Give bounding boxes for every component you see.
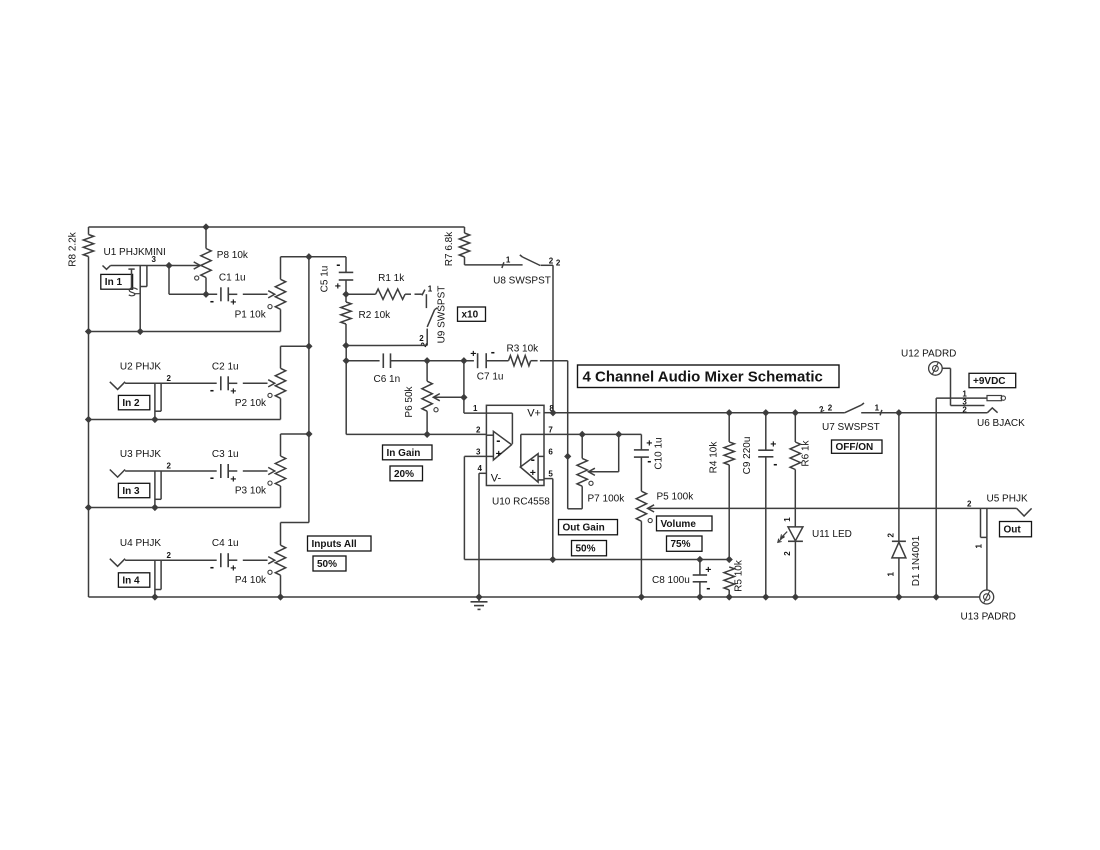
svg-text:-: - xyxy=(647,454,651,468)
LED U11 xyxy=(778,517,852,597)
svg-text:U11 LED: U11 LED xyxy=(812,529,852,540)
label U4 PHJK xyxy=(120,538,161,549)
junction dot P8 bottom xyxy=(203,291,209,297)
svg-text:U8 SWSPST: U8 SWSPST xyxy=(493,276,551,287)
svg-text:-: - xyxy=(210,294,214,308)
wire ch1 ground line xyxy=(89,331,281,333)
resistor R2 xyxy=(341,294,391,345)
svg-text:C1 1u: C1 1u xyxy=(219,273,246,284)
svg-text:U2 PHJK: U2 PHJK xyxy=(120,361,161,372)
svg-text:2: 2 xyxy=(549,257,554,266)
svg-text:In 2: In 2 xyxy=(122,398,140,409)
wire pin 8 stub xyxy=(544,412,553,414)
jack U4 PHJK tip contact xyxy=(110,559,125,567)
junction dot U6 pin1 at bus xyxy=(933,594,939,600)
junction dot U1 sleeve at ch1 ground xyxy=(137,328,143,334)
svg-text:Inputs All: Inputs All xyxy=(312,539,357,550)
junction dot top rail at P8 xyxy=(203,224,209,230)
svg-text:+: + xyxy=(230,386,236,398)
pin label 1 of U10 xyxy=(473,404,478,413)
junction dot ch2 ground at left rail xyxy=(85,416,91,422)
svg-text:R8 2.2k: R8 2.2k xyxy=(68,231,79,266)
svg-text:+: + xyxy=(230,563,236,575)
svg-text:1: 1 xyxy=(506,255,511,264)
jack U1 sleeve contact xyxy=(140,266,147,332)
resistor R4 xyxy=(709,413,735,560)
jack U5 PHJK xyxy=(967,493,1032,548)
capacitor C3 xyxy=(210,449,268,485)
junction dot U2 sleeve at ch2 ground xyxy=(152,416,158,422)
wire pin 2 row xyxy=(346,433,486,435)
junction dot D1 bottom at bus xyxy=(896,594,902,600)
svg-text:Out Gain: Out Gain xyxy=(563,523,605,534)
label box In 4 xyxy=(118,573,149,587)
svg-text:R4 10k: R4 10k xyxy=(709,441,720,474)
svg-text:3: 3 xyxy=(476,447,481,456)
potentiometer P5 xyxy=(636,491,694,597)
junction dot P7 wiper at pin7 row xyxy=(616,431,622,437)
pin label 2 of U4 xyxy=(167,551,172,560)
svg-text:1: 1 xyxy=(783,517,792,522)
wire pin 3 to bias net xyxy=(464,456,486,559)
potentiometer P7 xyxy=(577,434,625,504)
svg-text:D1 1N4001: D1 1N4001 xyxy=(911,535,922,586)
wire R3 to pin 6 node xyxy=(567,361,569,457)
svg-text:5: 5 xyxy=(548,469,553,478)
svg-text:Out: Out xyxy=(1004,525,1022,536)
switch U9 SWSPST xyxy=(419,285,447,349)
svg-text:P3 10k: P3 10k xyxy=(235,486,267,497)
svg-text:2: 2 xyxy=(167,551,172,560)
junction dot P4 bottom at bus xyxy=(277,594,283,600)
svg-text:C10 1u: C10 1u xyxy=(654,437,665,469)
wire V+ rail left of U7 xyxy=(553,412,845,414)
wire pin 6 to P7 bottom xyxy=(568,456,583,508)
label U2 PHJK xyxy=(120,361,161,372)
op-amp U10 amp A triangle xyxy=(486,413,512,460)
wire pin 4 to ground xyxy=(479,473,486,602)
svg-text:1: 1 xyxy=(428,285,433,294)
jack U3 PHJK tip contact xyxy=(110,470,125,478)
wire V+ rail right of U7 xyxy=(899,412,988,414)
capacitor C2 xyxy=(210,361,268,397)
svg-text:-: - xyxy=(336,258,340,272)
op-amp U10 amp B triangle xyxy=(520,434,544,482)
svg-text:1: 1 xyxy=(875,404,880,413)
svg-text:2: 2 xyxy=(828,403,833,412)
svg-text:-: - xyxy=(210,471,214,485)
wire left ground rail xyxy=(88,227,90,597)
junction dot P2 at mix bus xyxy=(306,343,312,349)
wire U2 to C2 xyxy=(125,382,217,384)
pad U12 PADRD xyxy=(901,349,956,376)
svg-text:2: 2 xyxy=(167,462,172,471)
pad U13 PADRD xyxy=(961,590,1016,623)
svg-text:R6 1k: R6 1k xyxy=(801,439,812,466)
resistor R6 xyxy=(790,413,811,527)
junction dot pin 5 at bias net xyxy=(550,556,556,562)
junction dot U4 sleeve at bottom bus xyxy=(152,594,158,600)
svg-text:2: 2 xyxy=(476,425,481,434)
pin label 6 of U10 xyxy=(548,447,553,456)
svg-text:U4 PHJK: U4 PHJK xyxy=(120,538,161,549)
junction dot U8 at V+ rail xyxy=(550,410,556,416)
svg-text:R3 10k: R3 10k xyxy=(507,343,540,354)
label box Volume xyxy=(657,516,713,531)
svg-text:OFF/ON: OFF/ON xyxy=(836,442,874,453)
svg-text:-: - xyxy=(706,581,710,595)
svg-text:2: 2 xyxy=(967,499,972,508)
svg-text:+9VDC: +9VDC xyxy=(973,376,1006,387)
wire pin 5 to bias net xyxy=(544,479,553,560)
label U3 PHJK xyxy=(120,449,161,460)
wire U12 to U6 pin 3 xyxy=(942,368,984,405)
wire R2 junction down to pin2 row xyxy=(345,346,347,435)
svg-text:C9 220u: C9 220u xyxy=(742,437,753,475)
svg-text:+: + xyxy=(705,564,711,576)
junction dot P5 bottom at bus xyxy=(638,594,644,600)
svg-text:R7 6.8k: R7 6.8k xyxy=(444,231,455,266)
wire R2 bottom to U9 pin 2 xyxy=(346,344,427,346)
wire P5 wiper to U5 jack xyxy=(649,507,1017,509)
jack U3 sleeve contact xyxy=(155,471,161,508)
svg-text:1: 1 xyxy=(473,404,478,413)
svg-text:C2 1u: C2 1u xyxy=(212,361,239,372)
diode D1 1N4001 xyxy=(887,413,922,597)
svg-text:6: 6 xyxy=(548,447,553,456)
potentiometer P3 xyxy=(235,434,286,508)
pin label 2 of U2 xyxy=(167,374,172,383)
svg-text:C5 1u: C5 1u xyxy=(320,266,331,293)
junction dot C9 bottom at bus xyxy=(763,594,769,600)
svg-text:U5 PHJK: U5 PHJK xyxy=(987,493,1028,504)
junction dot P3 at mix bus xyxy=(306,431,312,437)
junction dot P6 bottom xyxy=(424,431,430,437)
wire P3 top to mix bus xyxy=(281,433,309,435)
svg-text:-: - xyxy=(210,383,214,397)
wire U6 pin 1 down to bottom bus xyxy=(935,398,937,597)
svg-text:+: + xyxy=(530,467,536,479)
svg-text:+: + xyxy=(230,297,236,309)
svg-text:C3 1u: C3 1u xyxy=(212,449,239,460)
junction dot R6 top at V+ rail xyxy=(792,410,798,416)
capacitor C6 xyxy=(346,353,427,385)
potentiometer P2 xyxy=(235,346,286,419)
switch U7 SWSPST xyxy=(818,403,899,433)
pin label 8 of U10 xyxy=(549,404,554,413)
resistor R3 xyxy=(507,343,568,366)
svg-text:U3 PHJK: U3 PHJK xyxy=(120,449,161,460)
svg-text:C6 1n: C6 1n xyxy=(374,374,401,385)
wire bias net row xyxy=(464,559,729,561)
junction dot ch1 ground at left rail xyxy=(85,328,91,334)
potentiometer P4 xyxy=(235,523,286,598)
junction dot U7 pin1 / D1 at V+ rail xyxy=(896,410,902,416)
svg-text:In 3: In 3 xyxy=(122,486,140,497)
svg-text:+: + xyxy=(230,473,236,485)
svg-text:-: - xyxy=(496,433,500,447)
svg-text:P4 10k: P4 10k xyxy=(235,575,267,586)
svg-text:U6 BJACK: U6 BJACK xyxy=(977,418,1025,429)
junction dot ch3 ground at left rail xyxy=(85,504,91,510)
svg-text:U12 PADRD: U12 PADRD xyxy=(901,349,956,360)
capacitor C5 xyxy=(320,257,354,294)
junction dot R5 bottom at bus xyxy=(726,594,732,600)
wire P6 wiper node to pin 1 xyxy=(464,361,487,413)
op-amp U10 RC4558 body xyxy=(486,405,550,507)
potentiometer P1 xyxy=(235,257,286,332)
wire P1 top to C5 xyxy=(281,256,347,258)
svg-text:+: + xyxy=(646,437,652,449)
svg-text:V-: V- xyxy=(491,473,502,485)
svg-text:U10 RC4558: U10 RC4558 xyxy=(492,496,550,507)
junction dot P7 top at pin7 row xyxy=(579,431,585,437)
junction dot C5 bottom xyxy=(343,291,349,297)
svg-text:P1 10k: P1 10k xyxy=(235,310,267,321)
jack U1 switch contact xyxy=(128,269,139,296)
potentiometer P6 xyxy=(404,361,464,435)
junction dot C6 left xyxy=(343,358,349,364)
wire pin 7 row xyxy=(544,433,641,435)
svg-text:P8 10k: P8 10k xyxy=(217,250,249,261)
label box In 3 xyxy=(118,483,149,497)
wire U1 tip to P8 wiper xyxy=(111,265,200,267)
potentiometer P8 xyxy=(194,227,249,294)
pin label 2 of U10 xyxy=(476,425,481,434)
label box Out Gain xyxy=(559,520,618,535)
svg-text:50%: 50% xyxy=(576,544,596,555)
svg-text:1: 1 xyxy=(975,544,984,549)
barrel jack U6 BJACK xyxy=(936,389,1025,429)
switch U8 SWSPST xyxy=(465,255,561,287)
svg-text:4 Channel Audio Mixer Schemati: 4 Channel Audio Mixer Schematic xyxy=(583,369,823,386)
junction dot P6 top xyxy=(424,358,430,364)
jack U2 sleeve contact xyxy=(155,383,161,419)
junction dot P6 wiper node xyxy=(461,394,467,400)
label box In Gain xyxy=(383,445,433,460)
svg-text:In 1: In 1 xyxy=(105,277,123,288)
junction dot R4 top at V+ rail xyxy=(726,410,732,416)
label box In 2 xyxy=(118,395,149,409)
wire top rail xyxy=(89,226,465,228)
resistor R7 xyxy=(444,227,470,266)
svg-text:2: 2 xyxy=(887,532,896,537)
label box +9VDC xyxy=(969,373,1016,387)
wire U8 pin 2 down to V+ rail xyxy=(552,265,554,412)
junction dot C8 bottom at bus xyxy=(697,594,703,600)
pin label 5 of U10 xyxy=(548,469,553,478)
wire U5 down to U13 xyxy=(986,537,988,590)
capacitor C1 xyxy=(210,273,268,309)
pin label 3 of U1 xyxy=(152,255,157,264)
label box Inputs All xyxy=(308,536,372,551)
svg-text:U7 SWSPST: U7 SWSPST xyxy=(822,422,880,433)
capacitor C8 xyxy=(652,560,711,598)
svg-text:75%: 75% xyxy=(671,539,691,550)
pin label 2 of U3 xyxy=(167,462,172,471)
junction dot C8 top xyxy=(697,556,703,562)
jack U4 sleeve contact xyxy=(155,560,161,597)
wire ch2 ground line xyxy=(89,419,281,421)
svg-text:7: 7 xyxy=(548,425,553,434)
title box xyxy=(578,365,840,388)
label box In Gain 20% xyxy=(390,466,423,481)
wire U4 to C4 xyxy=(125,559,217,561)
svg-text:P6 50k: P6 50k xyxy=(404,385,415,417)
capacitor C4 xyxy=(210,538,268,574)
label U1 PHJKMINI xyxy=(104,247,166,258)
svg-text:R5 10k: R5 10k xyxy=(734,559,745,592)
junction dot pin4 ground at bus xyxy=(476,594,482,600)
wire bottom ground bus xyxy=(89,596,980,598)
wire U1 node down to C1 row xyxy=(169,266,217,295)
svg-text:P2 10k: P2 10k xyxy=(235,398,267,409)
label box x10 xyxy=(458,307,486,321)
svg-text:4: 4 xyxy=(478,464,483,473)
svg-text:-: - xyxy=(531,452,535,466)
resistor R8 xyxy=(68,231,94,266)
svg-text:+: + xyxy=(496,448,502,460)
svg-text:x10: x10 xyxy=(462,310,479,321)
junction dot LED bottom at bus xyxy=(792,594,798,600)
svg-text:Volume: Volume xyxy=(661,519,697,530)
junction dot mix bus top xyxy=(306,254,312,260)
svg-text:+: + xyxy=(335,280,341,292)
svg-text:2: 2 xyxy=(167,374,172,383)
svg-text:P5 100k: P5 100k xyxy=(657,492,695,503)
junction dot U3 sleeve at ch3 ground xyxy=(152,504,158,510)
svg-text:20%: 20% xyxy=(394,469,414,480)
label box In 1 xyxy=(101,274,133,289)
label box Out Gain 50% xyxy=(572,541,607,556)
svg-text:U13 PADRD: U13 PADRD xyxy=(961,612,1016,623)
svg-text:C8 100u: C8 100u xyxy=(652,575,690,586)
svg-text:-: - xyxy=(491,345,495,359)
pin label 3 of U10 xyxy=(476,447,481,456)
resistor R5 xyxy=(724,559,745,597)
label box Inputs All 50% xyxy=(313,556,346,571)
svg-text:C4 1u: C4 1u xyxy=(212,538,239,549)
wire P2 top to mix bus xyxy=(281,345,309,347)
wire mix bus xyxy=(281,257,309,523)
svg-text:In Gain: In Gain xyxy=(387,448,421,459)
ground symbol xyxy=(471,602,488,610)
svg-text:2: 2 xyxy=(556,259,561,268)
resistor R1 xyxy=(346,273,422,299)
svg-text:U9 SWSPST: U9 SWSPST xyxy=(436,286,447,344)
pin label 4 of U10 xyxy=(478,464,483,473)
svg-text:2: 2 xyxy=(962,405,967,414)
svg-text:50%: 50% xyxy=(317,559,337,570)
svg-text:-: - xyxy=(210,560,214,574)
capacitor C9 xyxy=(742,413,777,597)
svg-text:1: 1 xyxy=(887,571,896,576)
svg-text:P7 100k: P7 100k xyxy=(588,494,626,505)
label box Volume 75% xyxy=(667,536,703,551)
label box Out xyxy=(1000,522,1032,537)
junction dot C7 left node xyxy=(461,358,467,364)
wire ch3 ground line xyxy=(89,507,281,509)
svg-text:-: - xyxy=(773,457,777,471)
junction dot R4 bottom at bias net xyxy=(726,556,732,562)
svg-text:3: 3 xyxy=(152,255,157,264)
svg-text:R2 10k: R2 10k xyxy=(359,310,392,321)
junction dot C9 top at V+ rail xyxy=(763,410,769,416)
svg-text:V+: V+ xyxy=(527,408,541,420)
junction dot R2 bottom xyxy=(343,342,349,348)
label box OFF/ON xyxy=(832,440,883,453)
svg-text:+: + xyxy=(770,438,776,450)
capacitor C7 xyxy=(470,345,508,383)
svg-text:2: 2 xyxy=(783,551,792,556)
svg-text:U1 PHJKMINI: U1 PHJKMINI xyxy=(104,247,166,258)
jack U2 PHJK tip contact xyxy=(110,382,125,390)
wire U3 to C3 xyxy=(125,470,217,472)
wire C6 to C7 xyxy=(427,360,474,362)
svg-text:R1 1k: R1 1k xyxy=(378,273,405,284)
pin label 7 of U10 xyxy=(548,425,553,434)
junction dot pin 6 node xyxy=(565,453,571,459)
jack U1 PHJKMINI tip contact xyxy=(103,266,111,270)
svg-text:+: + xyxy=(470,348,476,360)
junction dot U1 node xyxy=(166,262,172,268)
svg-text:In 4: In 4 xyxy=(122,575,140,586)
capacitor C10 xyxy=(634,434,665,491)
svg-text:C7 1u: C7 1u xyxy=(477,372,504,383)
